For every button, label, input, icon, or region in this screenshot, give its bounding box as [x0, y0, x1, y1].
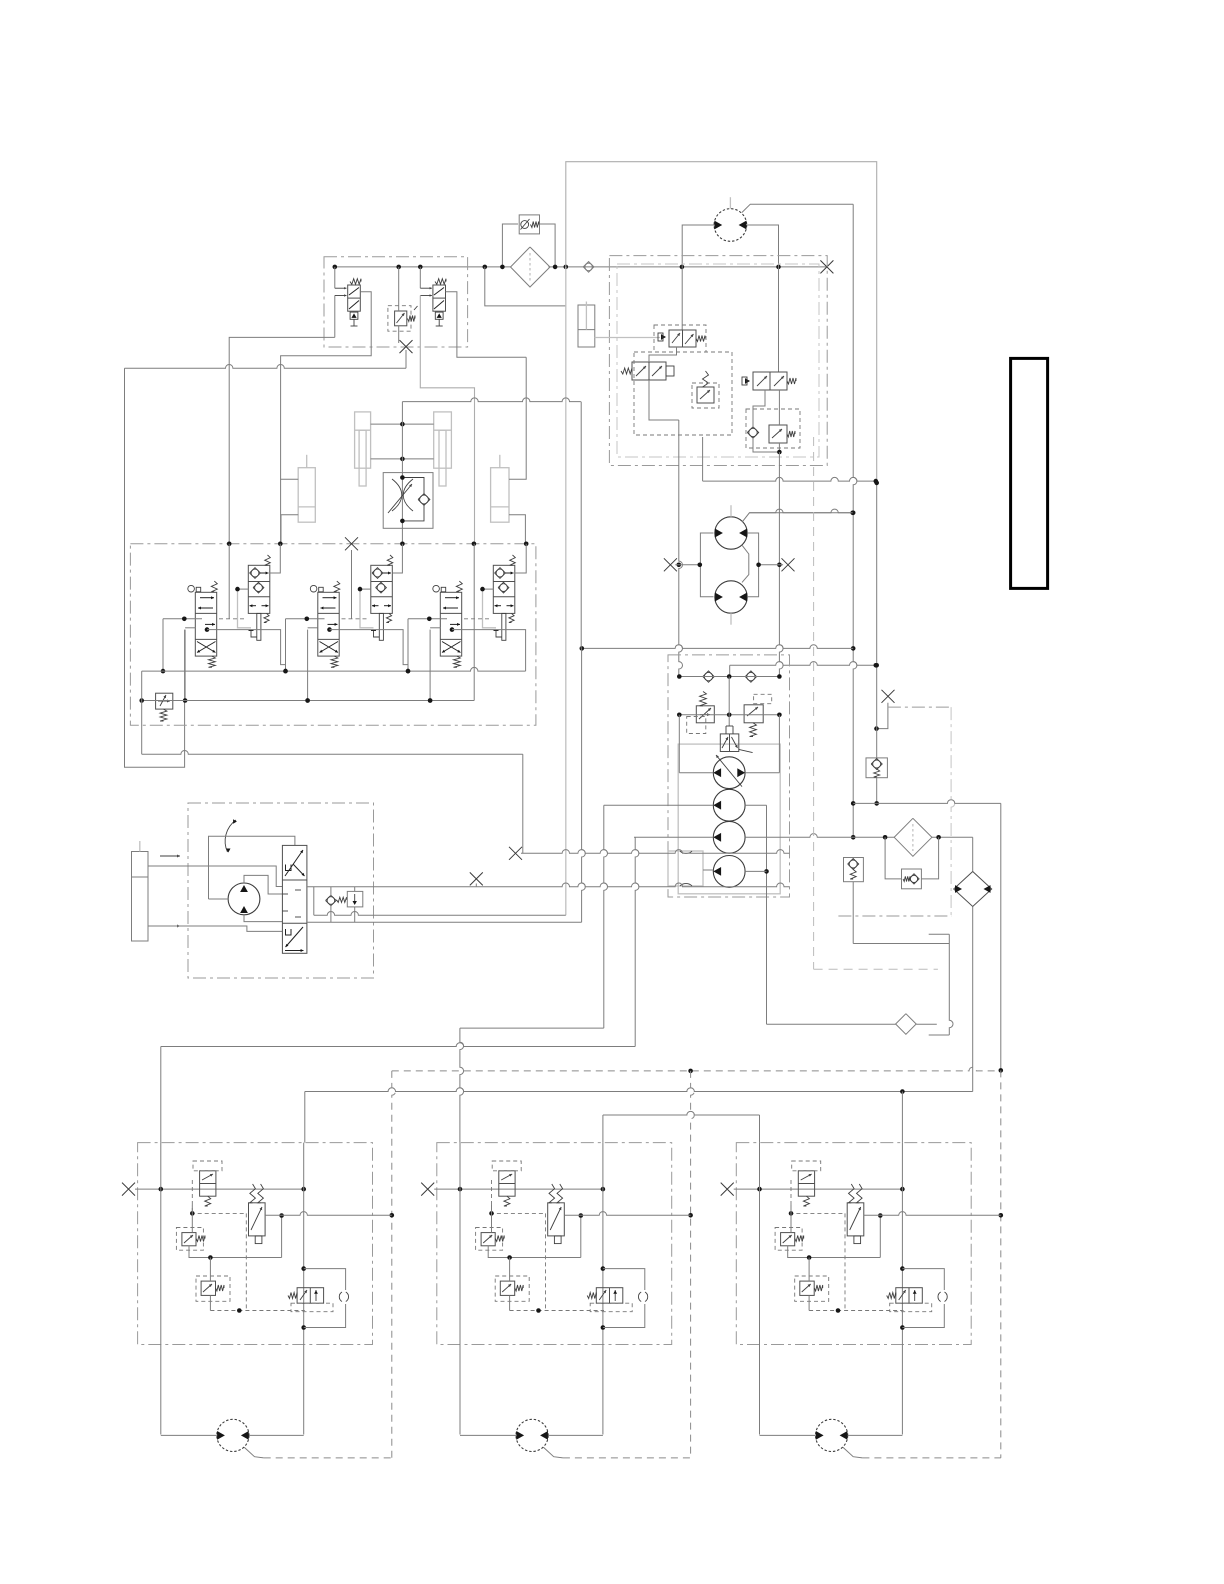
wheel motor WM2 [516, 1419, 548, 1451]
shift valve AV3e [896, 1288, 923, 1304]
fitting diamond D2 [896, 1014, 917, 1035]
case drain dash-dot 916 [838, 915, 951, 917]
wire motor 1 ports [161, 1434, 217, 1436]
wire pilot line to B-riser [402, 398, 581, 402]
relief valve RV1 (pilot) [388, 306, 411, 332]
wire axle 2 left rail [459, 1143, 461, 1435]
wire return bus 1091 [305, 1088, 973, 1092]
wire line y648 [582, 645, 853, 649]
filter F1 [511, 247, 551, 287]
brake valve AV3c [847, 1203, 864, 1236]
pump housing box [678, 744, 780, 894]
pilot dash net 3 [790, 1180, 792, 1213]
reducer valve AV3d [800, 1281, 814, 1295]
wire motor 1 drain [244, 1447, 264, 1458]
wheel motor WM1 [217, 1419, 249, 1451]
wire tank line to steering [142, 751, 523, 755]
wire cylinder ports [148, 865, 228, 867]
pilot valve PV2 [632, 362, 666, 380]
pilot dash net 2 [491, 1180, 493, 1213]
wire relief out 3 [788, 1246, 881, 1258]
solenoid valve block boundary (top-left) [324, 257, 468, 347]
wire brake loop 2 [603, 1269, 645, 1290]
shuttle valve AV2a [499, 1171, 515, 1196]
cylinder CYL1 (left lift) [355, 412, 371, 468]
wire axle 3 left rail [759, 1143, 761, 1435]
legend box (black) [1011, 358, 1048, 588]
wire motor 2 ports [460, 1434, 516, 1436]
wire axle 3 supply row [734, 1188, 903, 1190]
axle block 1 boundary [138, 1143, 373, 1345]
wire cylinder to stack [148, 866, 282, 887]
wire center line to flow control [401, 402, 403, 544]
wire stack1 feed from bus [270, 544, 281, 573]
wire block1 right rail top [304, 1092, 306, 1143]
wire axle 2 right rail [602, 1143, 604, 1435]
directional spool valve DV1 [195, 592, 216, 656]
wire SR1 hangers [330, 887, 332, 897]
axle block 2 boundary [437, 1143, 672, 1345]
wire axle 1 left rail [160, 1143, 162, 1435]
wire group1 left ports [163, 618, 202, 620]
check valve CV2 + throttle [749, 428, 757, 436]
plug X axle 1 [122, 1183, 135, 1196]
steering valve stack [282, 845, 307, 953]
wire brake loop 1 [304, 1269, 346, 1290]
wire axle 2 supply row [434, 1188, 603, 1190]
steering arrows [160, 855, 180, 857]
wire group1 riser [228, 544, 230, 619]
brake valve block boundary (top-right) [609, 256, 827, 466]
node dots main block top bus [227, 542, 232, 547]
wire row2 [307, 883, 790, 887]
wire filter line [745, 834, 894, 838]
gerotor motor GM1 [228, 883, 260, 915]
wire axle 3 right rail [901, 1143, 903, 1435]
wire drain staircase [852, 882, 854, 944]
plug X main block top [345, 537, 358, 550]
plug X motor right [782, 558, 795, 571]
wire cylinder cross lines [371, 423, 434, 425]
wire brake loop 3 [902, 1269, 944, 1290]
wire row1 [521, 850, 790, 854]
check stack CS2 [371, 565, 393, 613]
wire relief out 1 [189, 1246, 282, 1258]
hop marks 512 line [749, 509, 852, 513]
dashed box around CV2 [746, 409, 800, 448]
wire CYL3 ports [280, 478, 298, 480]
wire main supply line [335, 266, 512, 268]
wire PC1 pilot line [595, 337, 660, 339]
solenoid valve SV1 [348, 285, 361, 311]
filter bypass valve WO1 [902, 869, 922, 889]
shuttle valve AV3a [798, 1171, 814, 1196]
directional spool valve DV2 [318, 592, 339, 656]
gray dashed drain riser [813, 437, 815, 969]
pilot valve PV3 [753, 372, 787, 390]
cylinder CYL4 (small right) [491, 468, 509, 523]
wire M1 right port [747, 225, 779, 372]
plug X main line right [820, 260, 833, 273]
wire P1 ports [678, 715, 680, 773]
wire P2 pressure to C-riser [604, 804, 714, 806]
wire group3 stack link [483, 588, 494, 590]
wire drain riser right [853, 204, 857, 837]
wire SV1 ports [334, 267, 336, 288]
check stack CS1 [248, 565, 269, 613]
plug X axle 3 [721, 1183, 734, 1196]
wire fitting to tank [916, 1023, 937, 1025]
wire group3 work line [450, 627, 455, 632]
wire RV1 from supply [398, 267, 400, 311]
relief+check RC1 [844, 858, 864, 882]
pilot dash line group3 [464, 618, 491, 620]
axle block 3 boundary [736, 1143, 971, 1345]
wire block3 right rail top [901, 1092, 903, 1143]
pilot dashed drop v3 [1000, 1070, 1002, 1458]
pilot cylinder PC1 [578, 305, 595, 347]
wire gerotor ports [244, 875, 282, 894]
shuttle valve AV1a [200, 1171, 216, 1196]
plug X axle 2 [421, 1183, 434, 1196]
wire M2 drain diagonal [742, 513, 852, 522]
wire line y803 [853, 800, 1001, 804]
wire P3 to D-riser [634, 836, 713, 838]
wire M1 left port [682, 225, 714, 330]
quick coupler D1 [585, 263, 593, 271]
relief valve AV2b [481, 1233, 495, 1246]
tank bracket [929, 933, 950, 935]
wire P2 suction [745, 804, 766, 806]
wire PV2 to rail [649, 380, 679, 420]
pilot dash line group2 [342, 618, 369, 620]
node dots misc [874, 481, 879, 486]
wire CYL4 ports [509, 357, 526, 479]
pilot dashed bus 1070 [392, 1067, 1001, 1071]
wire motor 3 drain [843, 1447, 863, 1458]
wire SV2 ports [419, 267, 421, 288]
reducer valve AV2d [500, 1281, 514, 1295]
plug X charge [882, 690, 895, 703]
wire D riser (P3 to axle1) [635, 837, 639, 1046]
wire block3 left rail top [759, 1115, 761, 1143]
cooler CL1 [954, 872, 992, 907]
wire P4 suction [745, 870, 766, 872]
wire brake pilot row 3 [864, 1212, 1001, 1216]
wire M1 case drain diagonal [742, 204, 853, 212]
shift valve AV2e [596, 1288, 623, 1304]
wire bus 1115 [603, 1111, 760, 1115]
wire stack3 feed [515, 544, 526, 573]
wire line y665 [730, 662, 876, 666]
wire B riser [580, 402, 582, 649]
wire brake pilot row 2 [564, 1212, 690, 1216]
wheel motor WM3 [816, 1419, 848, 1451]
wire C riser (P2 to axle2) [604, 805, 608, 1028]
wire main block bus lower [142, 700, 475, 702]
wire relief line [679, 714, 779, 716]
steering cylinder [132, 852, 149, 942]
return filter F2 [894, 818, 932, 856]
plug X row1 [509, 847, 522, 860]
wire work line B (right) [420, 296, 474, 544]
wire gerotor feedback loop [209, 898, 229, 900]
wire row A (supply return) [314, 912, 566, 916]
wire supply branch down-left [485, 267, 566, 306]
shift valve AV1e [297, 1288, 324, 1304]
wire brake pilot row 1 [265, 1212, 392, 1216]
solenoid valve SV2 [433, 285, 446, 311]
wire motor 2 drain [543, 1447, 563, 1458]
relief valve RP2 [744, 705, 763, 723]
wire check line [679, 676, 779, 678]
wire group2 left ports [286, 618, 325, 620]
wire cooler return down [972, 907, 974, 1092]
wire row B (tank) [307, 921, 582, 923]
gear pump P3 [713, 821, 745, 853]
wire filter bypass [502, 224, 518, 267]
wire X drain to left edge [405, 350, 407, 368]
check valve CV1 (filter bypass) [519, 215, 539, 234]
cylinder CYL3 (small left) [298, 468, 315, 523]
reducer valve AV1d [201, 1281, 215, 1295]
servo valve SPV [720, 734, 739, 752]
pilot valve PV1 [669, 330, 696, 347]
wire group2 riser from plug [351, 550, 353, 619]
wire left pump rail riser [679, 420, 683, 677]
wire group1 stack link [238, 588, 249, 590]
wire supply riser to top rail [566, 162, 877, 483]
plug X motor left [664, 558, 677, 571]
wire right pump rail riser [779, 452, 783, 677]
wire group2 work line [327, 627, 332, 632]
wire return riser [876, 483, 878, 758]
wire relief out 2 [488, 1246, 581, 1258]
relief valve RV2 (small) [697, 387, 714, 403]
check stack CS3 [493, 565, 515, 613]
wire group2 stack link [360, 588, 371, 590]
wire axle 1 supply row [135, 1188, 304, 1190]
node dots main line [396, 265, 401, 270]
wire stack2 feed [392, 544, 402, 573]
gear motor M2 [715, 517, 747, 549]
wire left rail main block [141, 671, 143, 754]
wire tank return 481 line [703, 477, 876, 481]
wire main block bus upper [142, 667, 526, 671]
check valve CV4 (pump) [747, 672, 755, 680]
brake valve AV2c [548, 1203, 565, 1236]
wire suction manifold to fitting [767, 1023, 896, 1025]
dashed box around PV1 [654, 325, 706, 352]
gear motor M3 [715, 581, 747, 613]
wire M2/M3 right bracket [742, 545, 749, 582]
wire axle 1 right rail [303, 1143, 305, 1435]
wire motor 3 ports [760, 1434, 816, 1436]
check valve CV3 (pump) [704, 672, 712, 680]
pilot dash net 1 [191, 1180, 193, 1213]
main valve block boundary [130, 544, 536, 725]
wire group1 work line [205, 627, 210, 632]
wire supply down to steering (light) [565, 267, 567, 915]
variable pump P1 [713, 757, 745, 789]
wire group3 left ports [408, 618, 447, 620]
wire SV2 work line right [446, 292, 527, 357]
wire valve outlet lines bottom [702, 437, 704, 481]
wire M2/M3 left bracket [700, 533, 713, 597]
flow control valve FC1 [383, 473, 433, 529]
relief valve AV3b [781, 1233, 795, 1246]
plug X row2 [470, 872, 483, 885]
pilot dashed drop v2 [691, 1071, 695, 1458]
wire block2 right rail top [602, 1115, 604, 1143]
plug X below RV1 [400, 340, 413, 353]
cylinder CYL2 (right lift) [434, 412, 452, 468]
steering unit boundary [188, 803, 374, 978]
node dot drain/512 [850, 511, 855, 516]
relief valve RP1 [696, 706, 714, 723]
brake valve AV1c [249, 1203, 266, 1236]
case drain dash line [888, 706, 951, 708]
inner dashed box top-right [617, 264, 819, 457]
pilot dash line group1 [219, 618, 246, 620]
steering relief SR1 [327, 897, 335, 905]
wire SV1 work line [281, 292, 372, 544]
inner dashed pilot box [634, 352, 732, 435]
check valve CV5 (return) [866, 758, 887, 778]
gear pump P2 [713, 789, 745, 821]
travel motor M1 [714, 209, 747, 242]
wire PV1-PV2 link [649, 347, 677, 362]
wire tank line TL-block [229, 337, 335, 543]
gear pump P4 [713, 856, 745, 888]
pilot dashed drop v1 [392, 1071, 396, 1458]
relief valve RM1 (main block) [156, 693, 173, 709]
pump unit boundary [668, 655, 790, 897]
wire mid rail [728, 677, 730, 715]
directional spool valve DV3 [440, 592, 461, 656]
tank box [668, 851, 703, 886]
relief valve AV1b [182, 1233, 196, 1246]
